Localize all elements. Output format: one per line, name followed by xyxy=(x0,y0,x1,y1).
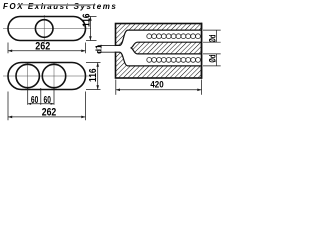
svg-text:116: 116 xyxy=(82,13,93,27)
open body wall at inlet xyxy=(114,46,116,51)
dimension 116 (top view, right) xyxy=(86,17,97,41)
svg-text:116: 116 xyxy=(88,68,99,82)
perforation circles bottom pipe xyxy=(147,58,201,63)
centerline horizontal (top view) xyxy=(3,28,91,30)
perforation circles top pipe xyxy=(147,34,201,39)
dimension 262 (bottom view) xyxy=(8,92,86,121)
dimension 60 / 60 (bottom view) xyxy=(28,88,54,105)
stadium outline (bottom view) xyxy=(8,63,86,90)
watermark FOX Exhaust Systems xyxy=(3,2,117,11)
svg-text:Ød: Ød xyxy=(207,54,218,62)
svg-text:420: 420 xyxy=(150,79,163,90)
dimension 262 (top view) xyxy=(8,43,86,54)
left circle (outlet 1) xyxy=(16,64,39,87)
label Ød (bottom outlet) xyxy=(203,54,221,66)
stadium outline (top view) xyxy=(8,17,86,41)
svg-text:60: 60 xyxy=(31,94,38,106)
circle (top view inlet hole) xyxy=(35,20,53,38)
Y pipe outer top wall xyxy=(116,30,202,45)
dimension 116 (bottom view, right) xyxy=(86,63,101,90)
svg-text:FOX Exhaust Systems: FOX Exhaust Systems xyxy=(3,2,117,11)
svg-text:60: 60 xyxy=(44,94,51,106)
centerline horizontal (bottom view) xyxy=(3,75,91,77)
muffler body (hatched) xyxy=(116,24,202,79)
Y pipe outer bottom wall xyxy=(116,52,202,66)
Y pipe inner wedge walls xyxy=(131,42,202,54)
centerline vertical right circle xyxy=(53,63,55,89)
inlet stub pipe lines xyxy=(98,44,116,46)
svg-text:Ød: Ød xyxy=(207,34,218,42)
svg-text:262: 262 xyxy=(35,40,50,52)
svg-text:262: 262 xyxy=(42,106,57,118)
label Ød (top outlet) xyxy=(203,30,221,42)
centerline vertical left circle xyxy=(27,63,29,89)
Y pipe white channel fill xyxy=(116,30,202,66)
svg-text:d1: d1 xyxy=(94,44,103,54)
centerline vertical through circle xyxy=(43,15,45,43)
dimension 420 xyxy=(116,80,202,95)
body right edge redraw xyxy=(201,23,203,79)
right circle (outlet 2) xyxy=(42,64,65,87)
